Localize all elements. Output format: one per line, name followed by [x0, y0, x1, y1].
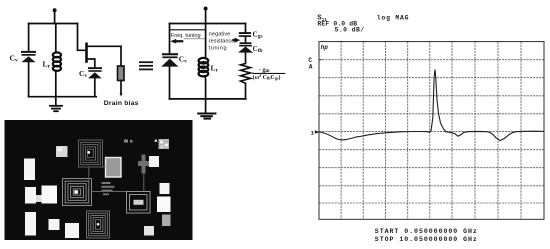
left tick: [319, 59, 322, 61]
svg-text:Drain bias: Drain bias: [104, 100, 139, 107]
wire bias feed with arrowhead: [120, 81, 123, 97]
arrow freq tuning: [170, 39, 183, 44]
pad P10: [160, 183, 170, 194]
wire left branch lower (right circuit): [169, 67, 171, 99]
pad P5: [25, 187, 36, 204]
wire varactor Cv2 to bottom rail: [94, 78, 96, 96]
die photo background: [5, 120, 193, 240]
wire supply stub: [54, 10, 56, 23]
inductor Lr (left circuit): [53, 52, 61, 71]
label Cv (right circuit): [179, 55, 187, 65]
label Drain bias: [104, 100, 139, 107]
varactor Cfb: [238, 42, 253, 52]
S11 trace: [319, 70, 544, 141]
graticule inner horizontal lines: [319, 60, 544, 203]
label negative resistance tuning: [209, 31, 235, 51]
wire drain lead: [88, 45, 122, 47]
pad P6: [42, 186, 58, 204]
wire left branch lower: [28, 62, 30, 96]
wire bottom rail (left circuit): [29, 96, 97, 98]
svg-text:log MAG: log MAG: [377, 14, 409, 21]
spiral inductor A (top-center): [79, 140, 103, 167]
svg-text:tuning: tuning: [209, 45, 227, 51]
wire bottom rail (right circuit): [170, 98, 246, 100]
wire source lead: [88, 59, 95, 67]
cross structure F: [138, 155, 149, 174]
pad P13: [144, 226, 154, 236]
plot header S11: [317, 15, 327, 24]
plot header log MAG: [377, 14, 409, 21]
svg-text:STOP 10.050000000 GHz: STOP 10.050000000 GHz: [375, 236, 478, 243]
wire middle branch lower (right circuit): [204, 76, 205, 99]
label Lr (right circuit): [211, 64, 219, 74]
resistor drain bias: [118, 66, 125, 81]
varactor Cv2: [88, 67, 102, 78]
equivalence symbol: [139, 61, 153, 70]
pad P8: [49, 219, 60, 230]
svg-text:1: 1: [311, 130, 315, 137]
wire Cfb to resistor: [245, 53, 247, 64]
label Freq. tuning: [171, 33, 201, 39]
plot header REF: [317, 21, 357, 28]
wire supply stub (right circuit): [205, 9, 207, 24]
pad P1 (left tall): [24, 159, 35, 181]
resistor negative resistance: [241, 64, 251, 84]
tiny marks: [124, 140, 133, 143]
interconnect lines: [89, 167, 144, 192]
marker 1: [311, 130, 320, 137]
wire middle branch lower: [55, 71, 57, 97]
wire resistor to bottom rail: [245, 83, 247, 99]
label -gm/(w2 CfbCgs): [252, 66, 285, 81]
freq tuning box bottom line: [184, 38, 205, 40]
wire left branch upper: [28, 24, 30, 52]
svg-text:negative: negative: [209, 31, 231, 37]
spiral inductor B (middle-left): [63, 179, 92, 206]
wire left branch upper (right circuit): [169, 24, 171, 54]
textured pad E (right upper): [155, 139, 169, 149]
pad P11: [157, 197, 171, 213]
svg-text:START 0.050000000 GHz: START 0.050000000 GHz: [375, 228, 478, 235]
spiral inductor C (bottom-center): [87, 211, 110, 238]
svg-text:A: A: [309, 64, 313, 71]
svg-text:hp: hp: [321, 44, 329, 51]
wire right branch upper (right circuit): [245, 24, 247, 33]
pad P9: [65, 223, 79, 238]
label Cv2: [79, 69, 87, 79]
arrow negative resistance: [233, 38, 241, 43]
wire middle branch upper: [55, 24, 57, 53]
wire gate branch: [78, 24, 86, 51]
supply node dot (right circuit): [204, 7, 208, 11]
wire drain bias vertical: [120, 46, 122, 66]
small structures G: [102, 182, 115, 195]
start stop labels: [375, 228, 478, 243]
wire middle branch upper (right circuit): [205, 24, 207, 59]
capacitor Cgs: [239, 32, 251, 37]
wire top rail (right circuit): [170, 23, 246, 25]
label Cfb: [253, 45, 263, 54]
svg-text:resistance: resistance: [209, 38, 235, 44]
pad P4: [149, 156, 159, 167]
varactor Cv (right circuit): [161, 53, 178, 66]
supply node dot (left circuit): [53, 8, 57, 12]
svg-text:Freq. tuning: Freq. tuning: [171, 33, 201, 39]
label Cgs: [253, 30, 263, 39]
plot header scale: [335, 27, 365, 34]
wire between Cgs and Cfb: [245, 37, 247, 42]
pad P7: [25, 212, 36, 236]
ground (left circuit): [50, 97, 62, 112]
svg-text:5.0 dB/: 5.0 dB/: [335, 27, 365, 34]
graticule border: [319, 42, 544, 220]
freq tuning box top line: [170, 29, 206, 31]
pad P2 (small upper): [56, 146, 68, 157]
pad P12: [162, 215, 171, 227]
label Lr (left circuit): [43, 60, 51, 70]
transistor Q1: [85, 44, 88, 62]
graticule inner vertical lines: [341, 42, 521, 220]
device box D (center-right): [127, 192, 151, 214]
varactor Cv1: [21, 51, 36, 62]
pad bridge: [36, 195, 42, 202]
channel labels C A: [308, 57, 312, 71]
pad P3 (bordered): [106, 158, 122, 178]
inductor Lr (right circuit): [199, 58, 209, 76]
label Cv1: [10, 54, 18, 64]
hp logo: [321, 44, 329, 51]
ground (right circuit): [198, 99, 215, 119]
wire top rail (left circuit): [29, 23, 78, 25]
